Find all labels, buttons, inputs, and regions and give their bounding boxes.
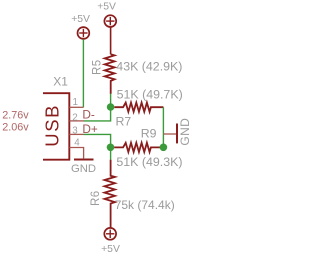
svg-text:USB: USB (41, 104, 62, 147)
wire R7 to ground net (162, 107, 164, 147)
svg-text:51K (49.3K): 51K (49.3K) (116, 155, 182, 169)
svg-text:R5: R5 (92, 59, 104, 75)
resistor R6 (105, 160, 115, 228)
svg-text:R7: R7 (116, 115, 132, 129)
svg-text:1: 1 (73, 97, 78, 108)
supply +5V P1 (top left) (71, 14, 90, 39)
svg-text:2.76v: 2.76v (2, 110, 29, 122)
wire R5 to node A (110, 94, 112, 107)
svg-text:R6: R6 (90, 190, 102, 206)
svg-text:3: 3 (72, 126, 78, 137)
pin 4 (69, 148, 83, 159)
wire node B to R6 (110, 147, 112, 160)
wire +5V P2 to R5 (110, 27, 112, 54)
node A junction (107, 103, 115, 111)
supply +5V P2 (top right) (97, 1, 116, 27)
pin 1 (69, 106, 83, 108)
wire node A to USB pin 2 (D-) (84, 107, 111, 121)
wire +5V P1 to USB pin 1 (82, 39, 84, 107)
ground GND (right) bar (176, 124, 178, 144)
svg-text:D-: D- (82, 107, 95, 121)
svg-text:43K (42.9K): 43K (42.9K) (116, 59, 182, 73)
ground GND (right) stub (163, 133, 176, 135)
svg-text:GND: GND (178, 118, 192, 146)
node R9-right junction (160, 144, 168, 152)
node B junction (107, 144, 115, 152)
resistor R9 (114, 143, 163, 152)
svg-text:GND: GND (71, 163, 96, 175)
wire node B to USB pin 3 (D+) (84, 134, 111, 147)
svg-text:+5V: +5V (97, 1, 116, 12)
svg-text:2.06v: 2.06v (2, 122, 29, 134)
svg-text:4: 4 (74, 138, 80, 149)
resistor R5 (105, 54, 115, 94)
resistor R7 (114, 103, 163, 112)
ground GND (USB pin 4) (74, 159, 94, 161)
svg-text:+5V: +5V (101, 244, 120, 255)
svg-text:+5V: +5V (71, 14, 90, 25)
pin 2 (69, 120, 84, 122)
supply +5V P3 (bottom) (101, 228, 120, 255)
svg-text:51K (49.7K): 51K (49.7K) (117, 88, 183, 102)
pin 3 (69, 133, 83, 135)
USB connector X1 box (43, 93, 69, 160)
svg-text:X1: X1 (53, 74, 68, 88)
svg-text:2: 2 (72, 112, 77, 123)
svg-text:R9: R9 (141, 127, 157, 141)
svg-text:75k (74.4k): 75k (74.4k) (115, 198, 175, 212)
